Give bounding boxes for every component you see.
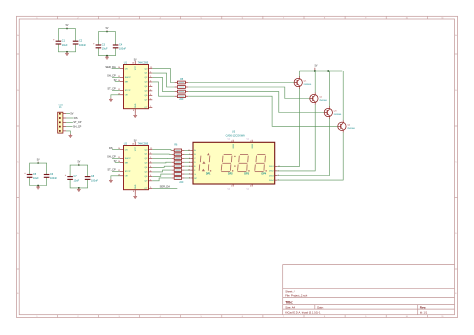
power 5V on MR	[114, 161, 120, 163]
wire	[98, 32, 115, 56]
wire U2 Q to R6	[152, 174, 171, 176]
U2 value 74HC595	[138, 143, 149, 146]
svg-text:100nF: 100nF	[91, 179, 99, 182]
resistor pack R6	[172, 145, 185, 184]
svg-text:VCC: VCC	[135, 65, 137, 70]
svg-text:Conn: Conn	[59, 104, 64, 106]
wire OE to ground	[111, 176, 120, 179]
svg-text:ST_CP: ST_CP	[107, 87, 116, 91]
power 5V	[77, 162, 80, 166]
svg-text:MR: MR	[125, 162, 129, 164]
svg-text:4: 4	[189, 158, 190, 160]
wire net SER_DA from U2	[152, 185, 177, 189]
svg-text:5: 5	[150, 89, 151, 91]
ground	[109, 179, 113, 183]
svg-text:3: 3	[231, 141, 232, 143]
wire R6 to display	[184, 173, 190, 175]
U2 pins	[118, 142, 152, 195]
capacitor C3	[93, 42, 108, 50]
ground	[109, 98, 113, 102]
svg-text:100nF: 100nF	[50, 177, 58, 180]
wire U2 Q to R6	[152, 149, 171, 152]
wire 5V rail	[300, 70, 343, 72]
ground	[65, 52, 69, 56]
wire R6 to display	[184, 165, 190, 167]
svg-text:1: 1	[150, 153, 151, 155]
svg-text:1: 1	[189, 166, 190, 168]
wire net SH_CP	[107, 74, 120, 78]
svg-text:15: 15	[150, 67, 152, 69]
svg-text:3: 3	[150, 161, 151, 163]
svg-text:6: 6	[150, 94, 151, 96]
power 5V	[106, 28, 109, 32]
svg-text:MR: MR	[125, 81, 129, 83]
svg-text:5V: 5V	[66, 25, 69, 27]
svg-text:8: 8	[133, 110, 134, 112]
svg-text:9: 9	[150, 187, 151, 189]
svg-text:CL: CL	[247, 139, 249, 141]
svg-text:5V: 5V	[114, 80, 117, 82]
svg-text:2N3906: 2N3906	[347, 128, 355, 130]
capacitor C5	[24, 172, 39, 180]
power 5V	[134, 141, 137, 143]
svg-text:2N3906: 2N3906	[319, 100, 327, 102]
svg-text:1: 1	[150, 72, 151, 74]
svg-text:2N3906: 2N3906	[334, 114, 342, 116]
transistor Q3 2N3906	[324, 106, 342, 119]
wire U1 Q to R5	[152, 77, 174, 91]
svg-text:5: 5	[189, 174, 190, 176]
svg-text:5V: 5V	[134, 60, 137, 62]
svg-text:Date:: Date:	[317, 305, 324, 309]
capacitor C2	[73, 40, 87, 47]
svg-text:GND: GND	[135, 184, 137, 189]
display right pins DIG1-DIG4	[269, 166, 280, 182]
wire U1 Q to R5	[152, 73, 174, 87]
capacitor C7	[65, 174, 80, 182]
wire U2 Q to R6	[152, 153, 171, 155]
wire 5V to Q4 emitter	[342, 71, 344, 120]
wire net ST_CP	[107, 168, 119, 172]
power 5V	[37, 160, 40, 164]
power 5V	[315, 65, 318, 71]
svg-text:3: 3	[150, 80, 151, 82]
svg-text:7: 7	[150, 179, 151, 181]
wire Q4 collector to display DIG4	[277, 132, 343, 180]
svg-text:DP4: DP4	[261, 172, 266, 175]
svg-text:GND: GND	[135, 103, 137, 108]
capacitor C6	[44, 173, 58, 180]
svg-text:DS: DS	[109, 146, 113, 150]
display left pins	[188, 149, 198, 180]
wire net SH_CP	[107, 155, 120, 159]
wire R5a to Q1 base	[188, 82, 294, 84]
node junction	[106, 55, 108, 57]
ground	[36, 186, 40, 190]
wire net ST_CP	[107, 87, 119, 91]
svg-text:7: 7	[189, 154, 190, 156]
svg-text:4: 4	[250, 185, 251, 187]
svg-text:SHCP: SHCP	[125, 158, 132, 160]
svg-text:SH_CP: SH_CP	[73, 126, 82, 129]
wire R6 to display	[184, 157, 190, 159]
svg-text:10uF: 10uF	[102, 48, 108, 51]
wire U2 Q to R6	[152, 166, 171, 167]
svg-text:6: 6	[150, 175, 151, 177]
wire Q1 collector to display DIG1	[277, 89, 299, 167]
svg-text:ST_CP: ST_CP	[107, 168, 116, 172]
svg-text:5V: 5V	[77, 162, 80, 164]
svg-text:Rev:: Rev:	[420, 306, 427, 310]
svg-text:Title:: Title:	[285, 300, 293, 304]
svg-text:VCC: VCC	[135, 146, 137, 151]
resistor pack R5	[175, 79, 189, 101]
wire 5V to Q1 emitter	[299, 71, 301, 77]
capacitor C1	[53, 39, 68, 47]
svg-text:7: 7	[150, 98, 151, 100]
svg-text:DP1: DP1	[206, 172, 211, 175]
svg-text:CL: CL	[247, 188, 249, 190]
wire R6 to display	[184, 161, 190, 163]
node ST_CP	[73, 121, 81, 124]
transistor Q2 2N3906	[310, 92, 328, 105]
display DP2 label	[228, 172, 233, 175]
svg-text:16: 16	[132, 63, 134, 65]
svg-text:Id: 1/1: Id: 1/1	[420, 311, 428, 315]
wire R5c to Q3 base	[188, 92, 324, 113]
op-amp U2 74HC595 body	[124, 146, 149, 190]
svg-text:10: 10	[188, 170, 190, 172]
svg-text:DS: DS	[74, 117, 78, 120]
ground	[133, 114, 137, 118]
transistor Q4 2N3906	[338, 120, 356, 133]
wire	[58, 29, 75, 52]
svg-text:KiCad E.D.A. kicad (5.1.10)-1: KiCad E.D.A. kicad (5.1.10)-1	[285, 311, 321, 315]
svg-text:Sheet: /: Sheet: /	[285, 289, 295, 293]
svg-text:100nF: 100nF	[79, 44, 87, 47]
node junction	[314, 70, 316, 72]
svg-text:STCP: STCP	[125, 171, 131, 173]
svg-text:SH_CP: SH_CP	[107, 155, 116, 159]
svg-text:CA56-12CGKWA: CA56-12CGKWA	[226, 135, 246, 138]
display top pins	[228, 139, 253, 149]
node DS	[74, 117, 78, 120]
svg-text:5V: 5V	[114, 161, 117, 163]
display DP3 label	[244, 172, 249, 175]
wire U1 Q to R5	[152, 82, 174, 96]
svg-text:CL: CL	[228, 139, 230, 141]
svg-text:15: 15	[150, 148, 152, 150]
svg-text:CL: CL	[228, 188, 230, 190]
svg-text:5: 5	[150, 170, 151, 172]
wire R6 to display	[184, 153, 190, 155]
connector J1	[58, 104, 66, 133]
svg-text:SH_CP: SH_CP	[107, 74, 116, 78]
svg-text:File: Project_2.sch: File: Project_2.sch	[285, 294, 308, 298]
display digit 2	[221, 155, 233, 172]
svg-text:5: 5	[250, 141, 251, 143]
svg-text:SER_DA: SER_DA	[105, 65, 116, 69]
wire R6 to display	[184, 177, 190, 179]
ground	[133, 195, 137, 199]
svg-text:STCP: STCP	[125, 90, 131, 92]
display digit 4	[255, 155, 267, 172]
wire 5V to Q3 emitter	[329, 71, 331, 107]
ground	[69, 134, 73, 138]
svg-text:4: 4	[150, 166, 151, 168]
svg-text:10uF: 10uF	[62, 44, 68, 47]
node 5V	[70, 113, 73, 116]
svg-text:5V: 5V	[70, 113, 73, 116]
wire R5d to Q4 base	[188, 96, 338, 126]
wire OE to ground	[111, 95, 120, 98]
svg-text:8: 8	[133, 191, 134, 193]
U1 reference	[124, 62, 128, 65]
svg-text:74HC595: 74HC595	[138, 143, 149, 146]
wire U1 Q to R5	[152, 69, 174, 83]
svg-text:10uF: 10uF	[74, 179, 80, 182]
U1 pins	[118, 61, 152, 114]
svg-text:2: 2	[150, 76, 151, 78]
title block	[283, 265, 455, 315]
wire U2 Q to R6	[152, 161, 171, 164]
svg-text:4: 4	[150, 85, 151, 87]
display U3 reference	[226, 130, 246, 137]
node SH_CP	[73, 126, 82, 129]
power 5V	[66, 25, 69, 29]
op-amp U1 74HC595 body	[124, 65, 149, 109]
wire R6 to display	[184, 149, 190, 151]
wire U2 Q to R6	[152, 157, 171, 159]
svg-text:5V: 5V	[106, 28, 109, 30]
power 5V	[134, 60, 137, 62]
svg-text:SHCP: SHCP	[125, 77, 132, 79]
wire Q3 collector to display DIG3	[277, 119, 329, 176]
wire U2 Q to R6	[152, 178, 171, 181]
svg-text:16: 16	[132, 144, 134, 146]
svg-text:10uF: 10uF	[33, 177, 39, 180]
svg-text:5V: 5V	[134, 141, 137, 143]
display colon	[234, 156, 235, 167]
svg-text:3: 3	[189, 178, 190, 180]
wire	[30, 163, 47, 185]
svg-text:9: 9	[150, 106, 151, 108]
transistor Q1 2N3906	[294, 76, 312, 89]
capacitor C8	[85, 175, 99, 182]
ground	[105, 56, 109, 60]
svg-text:SER_DA: SER_DA	[160, 185, 171, 189]
wire U2 Q to R6	[152, 170, 171, 172]
wire net DS	[109, 146, 120, 150]
svg-text:DP3: DP3	[244, 172, 249, 175]
display digit 3	[238, 155, 250, 172]
wire R6 to display	[184, 169, 190, 171]
node junction	[37, 185, 39, 187]
wire R5b to Q2 base	[188, 87, 310, 99]
U1 value 74HC595	[138, 62, 149, 65]
svg-text:DP2: DP2	[228, 172, 233, 175]
svg-text:2N3906: 2N3906	[304, 84, 312, 86]
svg-text:5V: 5V	[37, 160, 40, 162]
svg-text:ST_CP: ST_CP	[73, 121, 81, 124]
display DP4 label	[261, 172, 266, 175]
wire	[70, 165, 88, 188]
wire 5V to Q2 emitter	[314, 71, 316, 93]
svg-text:100nF: 100nF	[119, 48, 127, 51]
U2 reference	[124, 143, 128, 146]
capacitor C4	[113, 43, 127, 50]
node junction	[66, 51, 68, 53]
svg-text:2: 2	[150, 157, 151, 159]
svg-text:5V: 5V	[315, 65, 318, 67]
display U3 body	[193, 142, 275, 184]
svg-text:2: 2	[189, 162, 190, 164]
svg-text:74HC595: 74HC595	[138, 62, 149, 65]
svg-text:Size: A4: Size: A4	[285, 305, 295, 309]
power 5V on MR	[114, 80, 120, 82]
display bottom pins	[228, 184, 253, 190]
wire	[66, 114, 74, 134]
node junction	[78, 187, 80, 189]
display DP1 label	[206, 172, 211, 175]
ground	[77, 188, 81, 192]
display digit 1	[199, 153, 211, 172]
svg-text:11: 11	[188, 150, 190, 152]
wire Q2 collector to display DIG2	[277, 105, 315, 171]
wire net SER_DA	[105, 65, 119, 69]
svg-text:1: 1	[231, 185, 232, 187]
node junction	[327, 70, 329, 72]
